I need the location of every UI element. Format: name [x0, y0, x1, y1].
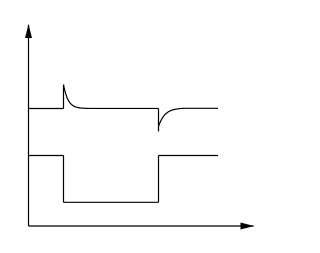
- upper trace flat middle segment: [90, 107, 159, 109]
- lower trace high segment left: [29, 155, 64, 157]
- upper trace falling spike: [158, 108, 160, 131]
- y-axis: [28, 38, 30, 227]
- upper trace baseline segment: [29, 108, 64, 110]
- lower trace low segment: [64, 201, 159, 203]
- upper trace exponential recovery: [159, 108, 185, 126]
- y-axis arrowhead: [25, 24, 32, 38]
- upper trace exponential decay: [64, 85, 90, 109]
- lower trace step up: [158, 156, 160, 203]
- lower trace high segment right: [159, 155, 219, 157]
- lower trace step down: [63, 156, 65, 203]
- upper trace rising spike: [63, 85, 65, 109]
- x-axis arrowhead: [241, 223, 255, 230]
- x-axis: [29, 225, 242, 227]
- upper trace final flat segment: [184, 107, 218, 109]
